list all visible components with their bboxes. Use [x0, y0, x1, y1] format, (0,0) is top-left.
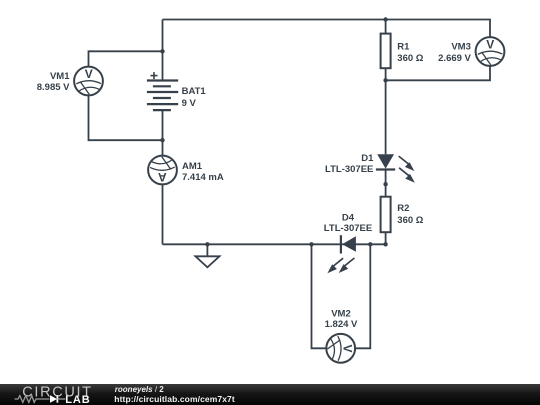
wire top rail	[163, 20, 491, 37]
svg-text:LTL-307EE: LTL-307EE	[324, 223, 372, 234]
ammeter AM1	[148, 156, 177, 185]
wire battery to AM1	[162, 110, 164, 156]
wire VM2 left branch	[312, 244, 327, 348]
svg-text:2.669 V: 2.669 V	[438, 53, 471, 64]
voltmeter VM2	[326, 334, 355, 363]
node R1 bottom / VM3 junction	[383, 78, 387, 82]
resistor R2	[381, 197, 391, 233]
wire battery top column	[162, 20, 164, 81]
svg-text:R2: R2	[397, 203, 409, 214]
wire VM2 right branch	[355, 244, 370, 348]
node VM2 left junction	[309, 242, 313, 246]
svg-text:VM1: VM1	[50, 71, 70, 82]
svg-text:rooneyels / 2: rooneyels / 2	[115, 385, 164, 394]
battery BAT1	[147, 81, 178, 111]
node VM2 right junction	[368, 242, 372, 246]
svg-text:D1: D1	[361, 153, 374, 164]
node D1 cathode / R2 junction	[383, 182, 387, 186]
wire R1 to D1	[385, 68, 387, 154]
svg-text:8.985 V: 8.985 V	[37, 82, 70, 93]
svg-text:AM1: AM1	[182, 161, 203, 172]
svg-text:360 Ω: 360 Ω	[397, 215, 423, 226]
node R2 bottom corner junction	[383, 242, 387, 246]
node battery minus junction	[160, 138, 164, 142]
svg-text:V: V	[486, 38, 494, 52]
svg-text:7.414 mA: 7.414 mA	[182, 172, 224, 183]
wire ground stub	[206, 244, 208, 256]
wire R2 bottom corner	[385, 232, 387, 244]
svg-text:VM2: VM2	[331, 308, 351, 319]
svg-text:V: V	[341, 344, 355, 352]
wire AM1 down	[162, 185, 164, 245]
LED D4	[327, 235, 356, 273]
node R1 top junction	[383, 17, 387, 21]
battery plus sign	[151, 72, 158, 79]
svg-text:A: A	[158, 170, 167, 184]
svg-text:LTL-307EE: LTL-307EE	[325, 164, 373, 175]
voltmeter VM1	[74, 67, 103, 96]
node ground junction	[205, 242, 209, 246]
svg-text:9 V: 9 V	[182, 98, 197, 109]
svg-text:R1: R1	[397, 41, 410, 52]
wire R1 top stub	[385, 20, 387, 34]
svg-text:LAB: LAB	[65, 394, 90, 405]
wire VM3 bottom branch	[386, 67, 490, 81]
svg-text:V: V	[85, 67, 93, 81]
svg-text:1.824 V: 1.824 V	[325, 319, 358, 330]
logo diode symbol	[50, 395, 57, 402]
svg-text:BAT1: BAT1	[182, 86, 207, 97]
svg-text:VM3: VM3	[451, 41, 471, 52]
resistor R1	[381, 34, 391, 69]
node battery plus junction	[160, 49, 164, 53]
ground	[195, 256, 219, 267]
voltmeter VM3	[476, 37, 505, 66]
wire D1 to R2	[385, 169, 387, 196]
LED D1	[376, 154, 415, 183]
wire VM1 top branch	[89, 51, 163, 67]
wire VM1 bottom branch	[89, 96, 163, 141]
logo resistor squiggle	[15, 396, 50, 403]
svg-text:http://circuitlab.com/cem7x7t: http://circuitlab.com/cem7x7t	[114, 394, 235, 404]
wire bottom rail	[163, 243, 386, 245]
svg-text:360 Ω: 360 Ω	[397, 53, 423, 64]
